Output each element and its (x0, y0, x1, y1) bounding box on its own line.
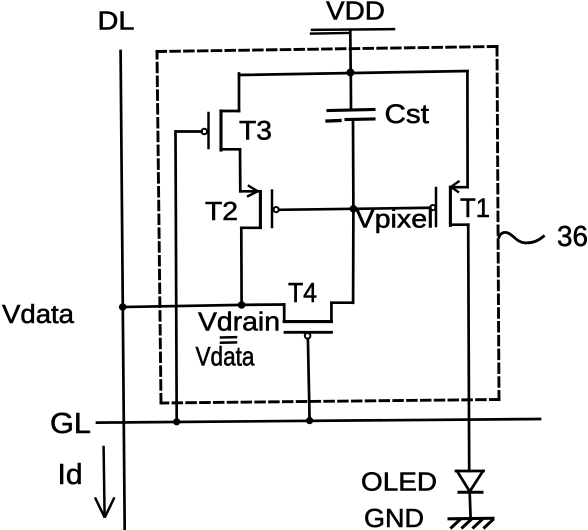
ground symbol (449, 518, 493, 527)
wire Cst bottom to Vpixel node (352, 120, 355, 209)
svg-text:Vdata: Vdata (2, 301, 75, 329)
junction dot Vpixel (350, 205, 358, 213)
callout squiggle to 36 (499, 232, 544, 242)
transistor T1 (430, 187, 468, 226)
label equals sign (221, 337, 236, 343)
junction dot GL / T3 gate (173, 418, 180, 425)
svg-text:VDD: VDD (326, 0, 385, 26)
svg-text:Vpixel: Vpixel (356, 204, 434, 234)
wire T3 source to T2 drain (239, 149, 242, 191)
dashed pixel-circuit boundary box 36 (157, 47, 499, 404)
capacitor Cst (327, 73, 374, 122)
junction dot GL / T4 gate (306, 417, 313, 424)
transistor T3 (176, 74, 240, 151)
wire GL gate line (97, 419, 540, 423)
wire Vpixel rail T2 gate to T1 gate (279, 208, 430, 210)
svg-text:GL: GL (50, 408, 91, 440)
svg-text:T2: T2 (205, 196, 238, 226)
svg-text:GND: GND (364, 505, 424, 530)
svg-text:Cst: Cst (385, 99, 430, 129)
svg-text:Id: Id (58, 459, 83, 491)
svg-text:OLED: OLED (361, 469, 437, 497)
svg-text:Vdata: Vdata (196, 342, 255, 372)
svg-text:36: 36 (557, 221, 588, 253)
wire T1 source down to OLED (468, 225, 469, 471)
wire Vdata from DL to T4 (123, 305, 242, 307)
wire DL data line (121, 51, 125, 530)
wire T3 gate down to GL (176, 132, 177, 422)
wire T4 gate down to GL (308, 339, 310, 421)
junction dot DL / Vdata (119, 303, 127, 311)
svg-text:T1: T1 (460, 193, 490, 223)
transistor T2 (240, 191, 279, 228)
svg-text:DL: DL (98, 6, 135, 36)
wire VDD riser (349, 31, 352, 73)
wire top supply node (239, 71, 468, 75)
OLED diode (456, 471, 484, 518)
arrow Id current (96, 447, 114, 517)
junction dot VDD node (347, 69, 355, 77)
power rail VDD bar (312, 28, 394, 31)
svg-text:Vdrain: Vdrain (198, 309, 280, 337)
wire T1 drain up to supply node (466, 71, 469, 187)
wire T2 source down to Vdata node (240, 228, 243, 305)
arrow into T2 drain (248, 186, 257, 196)
junction dot Vdata wire / T2 source (238, 301, 246, 309)
svg-text:T4: T4 (288, 277, 317, 308)
transistor T4 (242, 303, 354, 339)
wire Vpixel down to T4 right lead (352, 209, 355, 303)
svg-text:T3: T3 (239, 116, 272, 146)
arrow into T1 drain (451, 182, 459, 192)
